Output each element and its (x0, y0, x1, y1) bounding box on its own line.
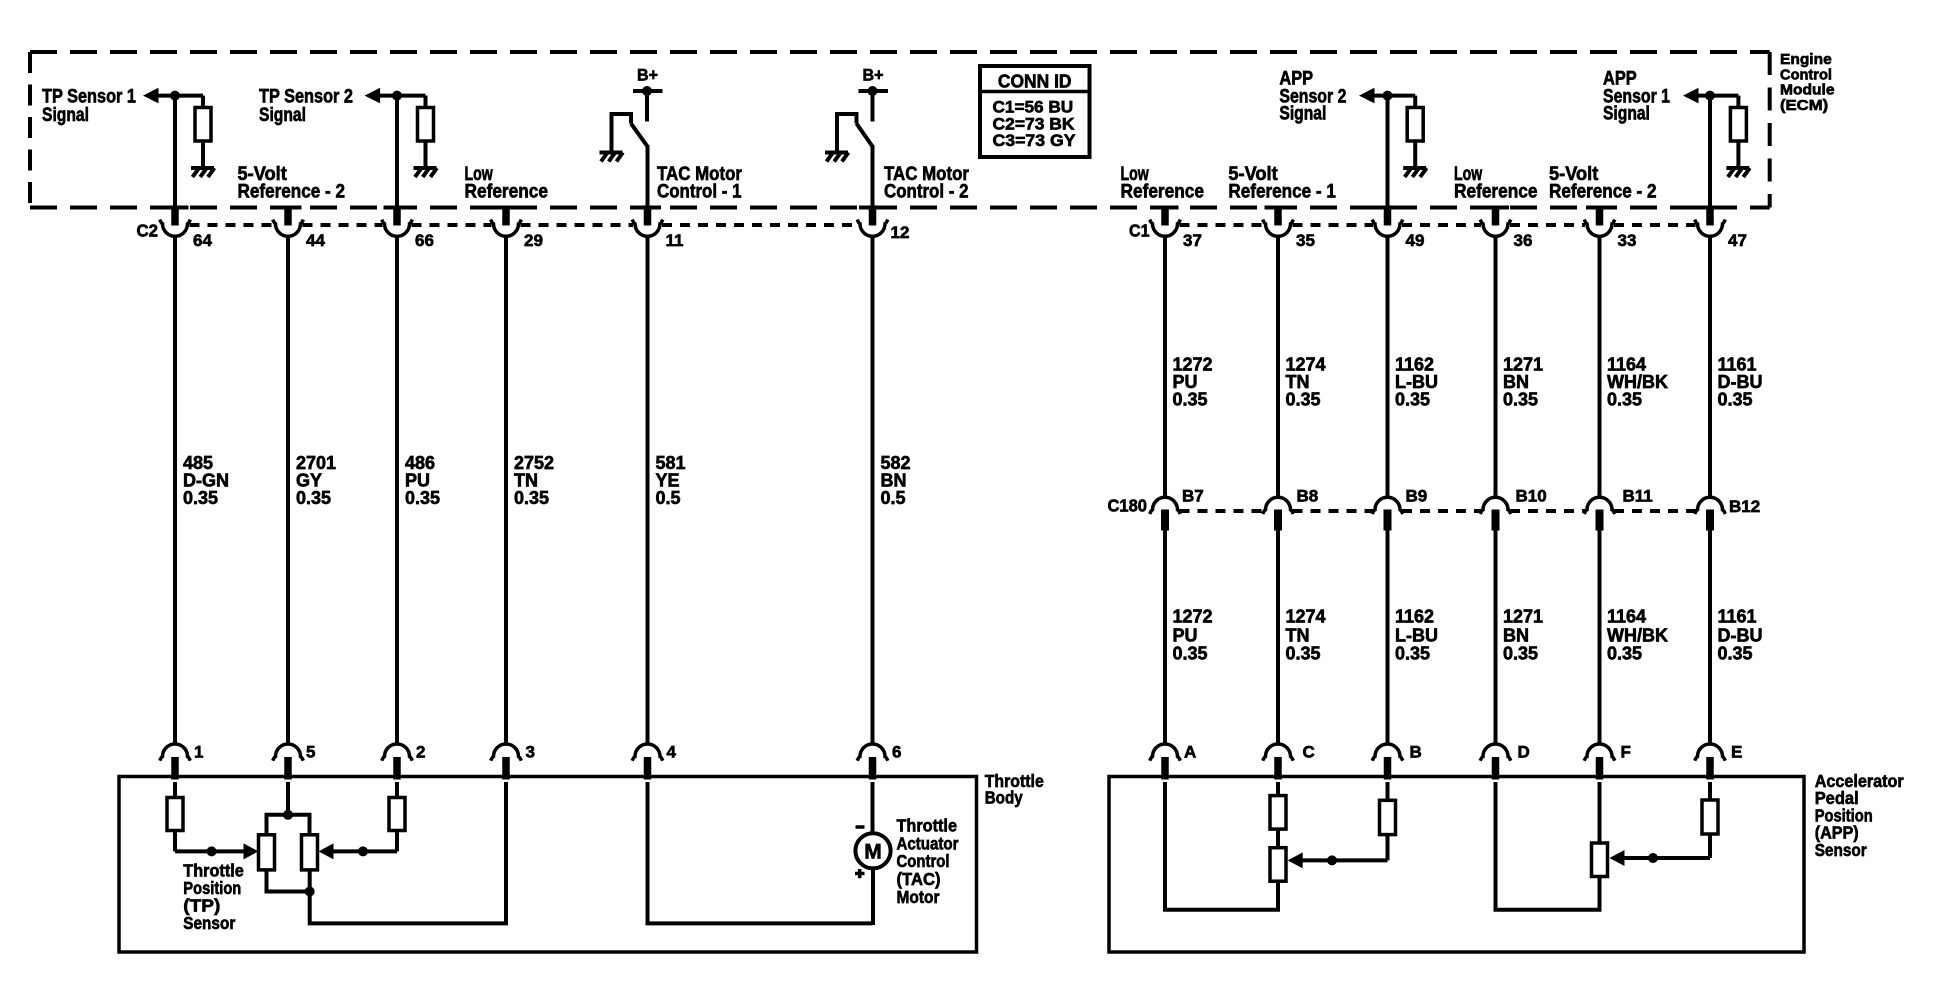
wire 1161 D-BU 0.35 (C180 to APP sensor) (1708, 530, 1712, 745)
svg-text:B9: B9 (1406, 487, 1428, 506)
inline connector C180 terminal B10 (1480, 497, 1511, 530)
pull-up resistor (TP Sensor 2 Signal) (418, 108, 434, 168)
svg-text:C1: C1 (1129, 221, 1150, 241)
wire switch SW1 to pin (646, 145, 650, 226)
wire label 582 BN 0.5 (881, 453, 911, 508)
svg-text:33: 33 (1618, 231, 1637, 250)
svg-text:L-BU: L-BU (1395, 626, 1438, 646)
TP sensor potentiometer element 2 (302, 835, 318, 870)
wire 1274 TN 0.35 (C180 to APP sensor) (1276, 530, 1280, 745)
label 5-Volt Reference - 2 (left) (238, 164, 346, 203)
svg-text:E: E (1731, 742, 1742, 761)
pin label 6 (892, 742, 901, 761)
label APP Sensor 1 Signal (1603, 69, 1670, 125)
pin label D (1518, 742, 1530, 761)
component-side terminal pin 1 (160, 744, 191, 780)
ground for APP Sensor 2 Signal resistor (1403, 168, 1426, 177)
pin label E (1731, 742, 1742, 761)
connector terminal pin 36 (1480, 206, 1511, 237)
wire 1161 D-BU 0.35 (ECM to C180) (1708, 237, 1712, 497)
signal arrow for TP Sensor 2 Signal (365, 88, 381, 104)
svg-text:0.35: 0.35 (1286, 644, 1321, 664)
svg-text:0.35: 0.35 (1286, 389, 1321, 409)
svg-text:1162: 1162 (1395, 607, 1434, 627)
pin number 29 (524, 231, 543, 250)
label Low Reference (left) (465, 164, 549, 203)
wire label 1162 L-BU 0.35 (upper) (1395, 355, 1438, 410)
pin label B8 (1297, 487, 1319, 506)
svg-text:1272: 1272 (1173, 607, 1213, 627)
resistor on APP pin E wire (1702, 782, 1718, 858)
wire label 1161 D-BU 0.35 (upper) (1718, 355, 1763, 410)
ECM bottom edge dash overlays at pin stubs (162, 206, 1724, 210)
junction node at pin wire (APP Sensor 2 Signal) (1383, 91, 1393, 101)
svg-text:Reference - 1: Reference - 1 (1228, 181, 1336, 202)
svg-text:B8: B8 (1297, 487, 1319, 506)
svg-text:Reference: Reference (1121, 181, 1205, 202)
svg-text:1271: 1271 (1503, 607, 1543, 627)
resistor in series with TP sensor wiper 2 (389, 782, 405, 851)
svg-text:B: B (1410, 742, 1422, 761)
svg-text:47: 47 (1728, 231, 1747, 250)
wire switch SW2 to pin (871, 145, 875, 226)
ground for switch SW2 (825, 153, 848, 162)
junction dot on TP wiper 1 wire (207, 846, 217, 856)
wire pin A to APP pot 2 bottom (1165, 782, 1278, 910)
connector terminal pin 49 (1372, 206, 1403, 237)
resistor on APP pin B wire (1380, 782, 1396, 860)
svg-text:Control - 1: Control - 1 (657, 181, 742, 202)
wire TP wiper 2 horizontal (331, 849, 397, 853)
component-side terminal pin F (1584, 744, 1615, 780)
connector terminal pin 47 (1695, 206, 1726, 237)
TP pot bottom bracket (267, 870, 310, 892)
svg-text:0.35: 0.35 (183, 488, 218, 508)
component-side terminal pin B (1372, 744, 1403, 780)
pin label B9 (1406, 487, 1428, 506)
label Throttle Body (985, 771, 1044, 808)
svg-text:2: 2 (416, 742, 425, 761)
svg-text:0.35: 0.35 (405, 488, 440, 508)
pin label B7 (1182, 487, 1204, 506)
svg-text:0.5: 0.5 (881, 488, 906, 508)
svg-text:B12: B12 (1729, 497, 1760, 516)
svg-text:M: M (864, 841, 882, 864)
label 5-Volt Reference - 1 (1228, 164, 1336, 203)
junction dot TP pot bottom (305, 887, 315, 897)
svg-text:TN: TN (1286, 626, 1310, 646)
junction node at pin wire (APP Sensor 1 Signal) (1705, 91, 1715, 101)
inline connector C180 terminal B8 (1263, 497, 1294, 530)
APP potentiometer element 2 (1270, 848, 1286, 882)
svg-text:11: 11 (666, 231, 684, 250)
wire 1272 PU 0.35 (ECM to C180) (1163, 237, 1167, 497)
svg-text:C180: C180 (1108, 496, 1148, 516)
pin label B12 (1729, 497, 1760, 516)
svg-text:(ECM): (ECM) (1780, 97, 1828, 114)
svg-text:0.35: 0.35 (1718, 644, 1753, 664)
wire label 1164 WH/BK 0.35 (upper) (1607, 355, 1668, 410)
connector terminal pin 11 (632, 206, 663, 237)
wire TP Sensor 1 junction to pin 64 (173, 96, 177, 226)
wire 485 D-GN 0.35 (pin to throttle body) (173, 237, 177, 745)
junction dot TP pot top (283, 810, 293, 820)
wire pin D to APP pot 1 bottom (1496, 782, 1600, 910)
svg-text:0.35: 0.35 (296, 488, 331, 508)
wire 1164 WH/BK 0.35 (C180 to APP sensor) (1598, 530, 1602, 745)
pin label C (1303, 742, 1315, 761)
wire pin 6 to TAC motor (871, 782, 876, 925)
wire label 1271 BN 0.35 (lower) (1503, 607, 1543, 664)
wire label 2752 TN 0.35 (514, 453, 554, 508)
signal arrow for TP Sensor 1 Signal (143, 88, 159, 104)
svg-text:Control - 2: Control - 2 (884, 181, 969, 202)
svg-text:WH/BK: WH/BK (1607, 626, 1668, 646)
svg-text:0.35: 0.35 (1173, 644, 1208, 664)
component-side terminal pin 6 (857, 744, 888, 780)
label TP Sensor 2 Signal (259, 86, 353, 126)
TP pot top bracket to pin 5 (267, 782, 310, 835)
svg-text:Reference - 2: Reference - 2 (238, 181, 346, 202)
resistor in series with TP sensor wiper 1 (167, 782, 183, 851)
label Throttle Actuator Control (TAC) Motor (897, 815, 959, 907)
component-side terminal pin E (1695, 744, 1726, 780)
junction node at pin wire (TP Sensor 2 Signal) (392, 91, 402, 101)
pin label B (1410, 742, 1422, 761)
svg-text:D: D (1518, 742, 1530, 761)
wire 1164 WH/BK 0.35 (ECM to C180) (1598, 237, 1602, 497)
component-side terminal pin 3 (491, 744, 522, 780)
wire label 1274 TN 0.35 (upper) (1286, 355, 1326, 410)
junction dot APP wiper 1 (1648, 853, 1658, 863)
pin label F (1621, 742, 1631, 761)
svg-text:Body: Body (985, 788, 1023, 808)
wire 1162 L-BU 0.35 (ECM to C180) (1386, 237, 1390, 497)
wire pin 4 to TAC motor minus lead (648, 782, 873, 923)
label TAC Motor Control - 1 (657, 164, 743, 203)
wire 1162 L-BU 0.35 (C180 to APP sensor) (1386, 530, 1390, 745)
component-side terminal pin 4 (632, 744, 663, 780)
svg-text:B+: B+ (863, 66, 884, 85)
ground for TP Sensor 1 Signal resistor (191, 168, 214, 177)
connector dotted line C1 row (1180, 223, 1696, 227)
signal arrow for APP Sensor 1 Signal (1683, 88, 1699, 104)
Throttle Body box (119, 777, 977, 953)
label TAC Motor Control - 2 (884, 164, 970, 203)
wire 486 PU 0.35 (pin to throttle body) (395, 237, 399, 745)
ECM module dashed boundary box (30, 52, 1770, 208)
wire TP Sensor 2 Signal arrow to resistor (379, 96, 426, 109)
svg-text:0.35: 0.35 (1718, 389, 1753, 409)
component-side terminal pin 2 (382, 744, 413, 780)
connector terminal pin 64 (160, 206, 191, 237)
inline connector C180 terminal B12 (1695, 497, 1726, 530)
svg-text:5: 5 (306, 742, 315, 761)
svg-text:1: 1 (194, 742, 203, 761)
pin number 64 (193, 231, 212, 250)
wire 1272 PU 0.35 (C180 to APP sensor) (1163, 530, 1167, 745)
driver switch SW1 (612, 114, 648, 151)
svg-text:0.35: 0.35 (1503, 389, 1538, 409)
svg-text:PU: PU (1173, 626, 1198, 646)
svg-text:B10: B10 (1516, 487, 1547, 506)
TP sensor potentiometer element 1 (259, 835, 275, 870)
ground for APP Sensor 1 Signal resistor (1726, 168, 1749, 177)
svg-text:66: 66 (415, 231, 434, 250)
pin label 4 (667, 742, 677, 761)
svg-text:BN: BN (1503, 626, 1529, 646)
connector label C2 (137, 221, 159, 241)
label Throttle Position (TP) Sensor (183, 861, 244, 933)
svg-text:0.5: 0.5 (656, 488, 681, 508)
connector terminal pin 66 (382, 206, 413, 237)
svg-text:C3=73 GY: C3=73 GY (993, 131, 1077, 150)
pin number 35 (1296, 231, 1315, 250)
pin number 36 (1514, 231, 1533, 250)
wire label 1162 L-BU 0.35 (lower) (1395, 607, 1438, 664)
connector terminal pin 35 (1263, 206, 1294, 237)
APP wiper arrow 1 (1610, 850, 1625, 866)
svg-text:B11: B11 (1623, 487, 1653, 506)
resistor on APP pin C wire (1270, 782, 1286, 848)
B+ supply symbol (TAC driver 1) (633, 66, 663, 122)
pin label B10 (1516, 487, 1547, 506)
inline connector C180 terminal B9 (1372, 497, 1403, 530)
svg-text:0.35: 0.35 (514, 488, 549, 508)
wire label 1274 TN 0.35 (lower) (1286, 607, 1326, 664)
svg-text:64: 64 (193, 231, 212, 250)
signal arrow for APP Sensor 2 Signal (1359, 88, 1375, 104)
CONN ID table (980, 66, 1090, 157)
svg-text:C2: C2 (137, 221, 159, 241)
pull-up resistor (APP Sensor 2 Signal) (1407, 108, 1423, 168)
pin number 12 (891, 223, 910, 242)
svg-text:4: 4 (667, 742, 677, 761)
svg-text:1164: 1164 (1607, 607, 1646, 627)
junction dot APP wiper 2 (1327, 855, 1337, 865)
wire APP Sensor 2 Signal arrow to resistor (1373, 96, 1415, 109)
ground for switch SW1 (600, 153, 623, 162)
connector terminal pin 44 (273, 206, 304, 237)
svg-text:Sensor: Sensor (183, 913, 235, 933)
pin number 37 (1183, 231, 1202, 250)
wire 2701 GY 0.35 (pin to throttle body) (286, 237, 290, 745)
pin label 3 (526, 742, 535, 761)
svg-text:3: 3 (526, 742, 535, 761)
svg-text:B7: B7 (1182, 487, 1204, 506)
component-side terminal pin 5 (273, 744, 304, 780)
svg-text:Reference: Reference (1454, 181, 1538, 202)
pin label 2 (416, 742, 425, 761)
junction node at pin wire (TP Sensor 1 Signal) (170, 91, 180, 101)
B+ supply symbol (TAC driver 2) (859, 66, 889, 122)
svg-text:12: 12 (891, 223, 910, 242)
wire APP wiper 2 horizontal (1300, 858, 1388, 862)
wire 2752 TN 0.35 (pin to throttle body) (504, 237, 508, 745)
inline connector C180 terminal B7 (1150, 497, 1181, 530)
label TP Sensor 1 Signal (42, 86, 136, 126)
wire APP Sensor 1 junction to pin 47 (1708, 96, 1712, 226)
label APP Sensor 2 Signal (1279, 69, 1346, 125)
wire APP Sensor 1 Signal arrow to resistor (1697, 96, 1738, 109)
wire TP Sensor 2 junction to pin 66 (395, 96, 399, 226)
svg-text:29: 29 (524, 231, 543, 250)
wire label 2701 GY 0.35 (296, 453, 336, 508)
pin number 47 (1728, 231, 1747, 250)
pin label A (1184, 742, 1196, 761)
pin number 66 (415, 231, 434, 250)
wire 1271 BN 0.35 (ECM to C180) (1494, 237, 1498, 497)
component-side terminal pin D (1480, 744, 1511, 780)
connector dotted line C2 row (190, 223, 859, 227)
svg-text:0.35: 0.35 (1607, 644, 1642, 664)
label Engine Control Module (ECM) (1780, 51, 1835, 114)
svg-text:0.35: 0.35 (1173, 389, 1208, 409)
component-side terminal pin A (1150, 744, 1181, 780)
wire 582 BN 0.5 (pin to throttle body) (871, 237, 875, 745)
connector terminal pin 29 (491, 206, 522, 237)
pull-up resistor (TP Sensor 1 Signal) (195, 108, 211, 168)
connector terminal pin 12 (857, 206, 888, 237)
driver switch SW2 (837, 114, 873, 151)
wire 1271 BN 0.35 (C180 to APP sensor) (1494, 530, 1498, 745)
wire label 581 YE 0.5 (656, 453, 686, 508)
component-side terminal pin C (1263, 744, 1294, 780)
wire label 1272 PU 0.35 (lower) (1173, 607, 1213, 664)
svg-text:1161: 1161 (1718, 607, 1757, 627)
TAC motor minus terminal label (856, 825, 865, 829)
svg-text:Signal: Signal (1279, 104, 1326, 125)
wire pin F to APP pot 1 top (1598, 782, 1602, 844)
svg-text:Signal: Signal (259, 105, 306, 126)
svg-text:37: 37 (1183, 231, 1202, 250)
pin number 44 (306, 231, 325, 250)
svg-text:Signal: Signal (1603, 104, 1650, 125)
svg-text:F: F (1621, 742, 1631, 761)
pin label 1 (194, 742, 203, 761)
connector terminal pin 37 (1150, 206, 1181, 237)
svg-text:0.35: 0.35 (1503, 644, 1538, 664)
inline connector C180 terminal B11 (1584, 497, 1615, 530)
pin number 49 (1406, 231, 1425, 250)
label Low Reference (C1 pin 36) (1454, 164, 1538, 203)
svg-text:6: 6 (892, 742, 901, 761)
junction dot on TP wiper 2 wire (358, 846, 368, 856)
svg-text:1274: 1274 (1286, 607, 1326, 627)
wire label 1164 WH/BK 0.35 (lower) (1607, 607, 1668, 664)
svg-text:Motor: Motor (897, 887, 940, 907)
label Low Reference (C1 pin 37) (1121, 164, 1205, 203)
connector dotted line C180 row (1180, 509, 1696, 513)
wire 581 YE 0.5 (pin to throttle body) (646, 237, 650, 745)
svg-text:36: 36 (1514, 231, 1533, 250)
wire APP wiper 1 horizontal (1622, 856, 1710, 860)
svg-text:Signal: Signal (42, 105, 89, 126)
svg-text:49: 49 (1406, 231, 1425, 250)
wire label 485 D-GN 0.35 (183, 453, 229, 508)
wire label 1272 PU 0.35 (upper) (1173, 355, 1213, 410)
pin label B11 (1623, 487, 1653, 506)
TP sensor wiper arrow 1 (244, 843, 259, 859)
svg-text:C: C (1303, 742, 1315, 761)
svg-text:0.35: 0.35 (1395, 644, 1430, 664)
label 5-Volt Reference - 2 (right) (1549, 164, 1657, 203)
pull-up resistor (APP Sensor 1 Signal) (1730, 108, 1746, 168)
Accelerator Pedal Position Sensor box (1109, 777, 1804, 953)
connector label C1 (1129, 221, 1150, 241)
TAC motor plus terminal label (855, 869, 865, 878)
label Accelerator Pedal Position (APP) Sensor (1815, 771, 1904, 860)
APP wiper arrow 2 (1288, 852, 1303, 868)
TAC motor M1 (855, 833, 890, 868)
svg-text:A: A (1184, 742, 1196, 761)
svg-text:44: 44 (306, 231, 325, 250)
svg-text:0.35: 0.35 (1395, 389, 1430, 409)
svg-text:CONN ID: CONN ID (998, 70, 1072, 91)
wire TP wiper 1 horizontal (175, 849, 245, 853)
wire TP pot bottom to pin 3 (310, 782, 506, 923)
pin label 5 (306, 742, 315, 761)
wire label 1161 D-BU 0.35 (lower) (1718, 607, 1763, 664)
svg-text:B+: B+ (637, 66, 658, 85)
connector terminal pin 33 (1584, 206, 1615, 237)
svg-text:Reference - 2: Reference - 2 (1549, 181, 1657, 202)
pin number 33 (1618, 231, 1637, 250)
ground for TP Sensor 2 Signal resistor (414, 168, 437, 177)
APP potentiometer element 1 (1592, 843, 1608, 877)
svg-text:Reference: Reference (465, 181, 549, 202)
svg-text:D-BU: D-BU (1718, 626, 1763, 646)
wire APP Sensor 2 junction to pin 49 (1386, 96, 1390, 226)
svg-text:Sensor: Sensor (1815, 840, 1867, 860)
connector label C180 (1108, 496, 1148, 516)
wire label 486 PU 0.35 (405, 453, 440, 508)
svg-text:35: 35 (1296, 231, 1315, 250)
TP sensor wiper arrow 2 (319, 843, 334, 859)
wire 1274 TN 0.35 (ECM to C180) (1276, 237, 1280, 497)
svg-text:0.35: 0.35 (1607, 389, 1642, 409)
wire TP Sensor 1 Signal arrow to resistor (157, 96, 203, 109)
wire label 1271 BN 0.35 (upper) (1503, 355, 1543, 410)
pin number 11 (666, 231, 684, 250)
